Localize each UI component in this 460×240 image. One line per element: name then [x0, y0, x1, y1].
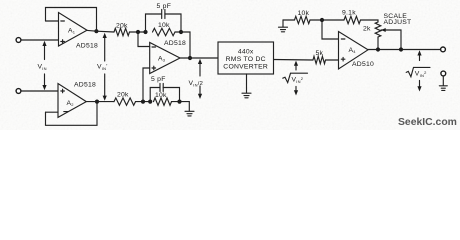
svg-text:9.1k: 9.1k: [342, 10, 356, 17]
output terminal J3: [441, 47, 446, 52]
node D (feedback join): [179, 30, 183, 34]
node A2 output: [95, 100, 99, 104]
svg-text:RMS TO DC: RMS TO DC: [226, 56, 266, 63]
node C (C1 left): [143, 30, 147, 34]
wire A2 - input stub: [46, 111, 59, 113]
wire C1 left branch: [146, 14, 162, 32]
svg-text:10k: 10k: [298, 10, 310, 17]
svg-text:10k: 10k: [155, 92, 167, 99]
svg-text:AD510: AD510: [352, 61, 374, 68]
capacitor C1 5pF: [157, 3, 172, 19]
input terminal J2 (bottom): [16, 89, 21, 94]
wire node D to A3 output: [181, 32, 190, 58]
wire node H to R6: [322, 19, 344, 21]
annotation Vin' (buffered): [97, 33, 108, 101]
node pot bottom join: [376, 47, 380, 51]
wire R6 to pot top: [361, 20, 379, 22]
label scale adjust: [384, 13, 412, 26]
svg-text:5 pF: 5 pF: [151, 76, 166, 83]
ground (R5 reference): [279, 20, 288, 32]
wire node G to ground: [180, 102, 190, 112]
op-amp A3: [150, 40, 186, 74]
node E (A3 noninv tap): [141, 100, 145, 104]
resistor R1 20k: [114, 23, 130, 36]
node G (C2 join): [177, 100, 181, 104]
annotation sqrt(mean Vin^2) at output: [406, 50, 430, 91]
wire R4 to node G: [172, 101, 180, 103]
svg-text:20k: 20k: [117, 92, 129, 99]
node A3 output: [188, 56, 192, 60]
svg-text:CONVERTER: CONVERTER: [223, 64, 268, 71]
op-amp A1: [59, 13, 99, 50]
annotation sqrt(mean Vin^2) at U5 output: [283, 61, 308, 96]
resistor R5 10k: [295, 10, 311, 24]
node F (C2 left): [148, 100, 152, 104]
wire A2 feedback loop: [46, 102, 98, 126]
wire node E to A3 + input: [143, 68, 150, 102]
svg-text:5k: 5k: [316, 50, 324, 57]
wire C1 right branch: [165, 14, 181, 32]
watermark SeekIC.com: [398, 117, 457, 128]
wire A1 - input stub: [46, 20, 59, 22]
wire A1 output to R1: [87, 30, 114, 32]
svg-text:AD518: AD518: [76, 43, 98, 50]
wire node B to A3 - input: [138, 32, 150, 47]
node A1 output: [94, 29, 98, 33]
wire U5 output: [274, 59, 314, 62]
output ground terminal J4: [441, 71, 446, 85]
wire J1 to A1 + input: [21, 39, 58, 41]
svg-text:AD518: AD518: [74, 82, 96, 89]
svg-text:10k: 10k: [158, 22, 170, 29]
potentiometer R8 2k scale adjust: [363, 22, 401, 50]
resistor R3 20k: [114, 92, 136, 106]
resistor R4 10k: [154, 92, 172, 105]
wire R7 to A4 + input: [326, 59, 339, 61]
wire R2 to node D: [175, 31, 181, 33]
converter U5 440x RMS-to-DC: [218, 42, 274, 74]
svg-text:AD518: AD518: [164, 40, 186, 47]
svg-text:20k: 20k: [116, 23, 128, 30]
op-amp A4: [339, 32, 375, 70]
svg-text:2k: 2k: [363, 26, 371, 33]
wire R3 to node E: [136, 101, 151, 103]
ground (input network): [185, 111, 194, 116]
capacitor C2 5pF: [151, 76, 166, 92]
node B (A3 inverting tap): [136, 30, 140, 34]
resistor R2 10k: [153, 22, 176, 36]
wire J2 to A2 + input: [21, 90, 58, 92]
svg-text:5 pF: 5 pF: [157, 3, 172, 10]
wire C2 right branch: [163, 88, 179, 102]
svg-text:SeekIC.com: SeekIC.com: [398, 117, 457, 128]
ground (converter): [242, 93, 251, 98]
node wiper join: [399, 47, 403, 51]
ground (output): [439, 86, 447, 91]
wire C2 left branch: [150, 88, 159, 102]
wire U5 ground stub: [246, 74, 248, 93]
wire A2 output to R3: [86, 101, 114, 103]
input terminal J1 (top): [16, 38, 21, 43]
wire A4 output rail: [368, 49, 441, 51]
annotation Vin (differential input): [38, 41, 47, 90]
wire R1 to node B: [130, 31, 146, 33]
node H (A4 inverting): [320, 18, 324, 22]
resistor R6 9.1k: [342, 10, 361, 24]
wire R5 to node H: [310, 19, 322, 21]
wire ground to R5: [283, 19, 295, 21]
svg-text:ADJUST: ADJUST: [384, 19, 412, 26]
annotation Vin/2: [189, 59, 204, 99]
resistor R7 5k: [313, 50, 326, 64]
wire A1 feedback loop: [46, 8, 97, 32]
op-amp A2: [58, 82, 96, 118]
svg-text:440x: 440x: [238, 49, 254, 56]
wire node H to A4 - input: [322, 20, 339, 39]
wire A3 output to U5: [180, 57, 218, 59]
